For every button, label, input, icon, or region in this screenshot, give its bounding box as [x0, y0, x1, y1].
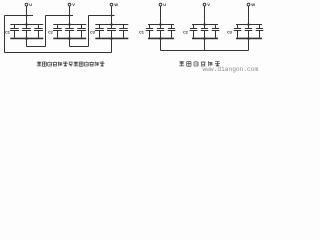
svg-text:C3: C3 — [227, 31, 232, 35]
svg-text:U: U — [163, 2, 166, 7]
svg-text:C2: C2 — [183, 31, 188, 35]
svg-text:V: V — [207, 2, 210, 7]
svg-text:V: V — [72, 2, 75, 7]
svg-text:C3: C3 — [90, 31, 95, 35]
svg-text:C1: C1 — [5, 31, 10, 35]
svg-text:C2: C2 — [48, 31, 53, 35]
svg-text:W: W — [114, 2, 118, 7]
svg-text:W: W — [251, 2, 255, 7]
svg-text:www.diangon.com: www.diangon.com — [203, 66, 259, 73]
svg-text:U: U — [29, 2, 32, 7]
svg-text:C1: C1 — [139, 31, 144, 35]
